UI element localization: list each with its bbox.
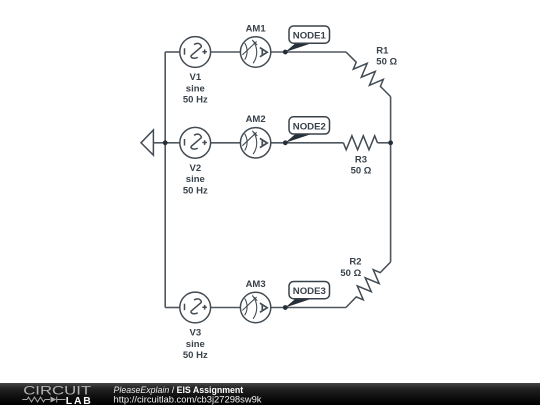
node NODE1 dot [283, 50, 288, 55]
ammeter AM1 [240, 37, 270, 67]
svg-text:NODE1: NODE1 [293, 31, 327, 42]
footer bar [0, 383, 540, 405]
resistor R2 [346, 262, 391, 308]
svg-text:50 Ω: 50 Ω [351, 166, 372, 177]
node NODE3 flag [285, 282, 329, 308]
resistor R3 [343, 136, 377, 150]
svg-text:50 Hz: 50 Hz [183, 95, 208, 106]
wire row2 stub triangle to bus [153, 142, 165, 144]
wire row1 V1 to AM1 [211, 51, 241, 53]
voltage source V1 [180, 37, 211, 68]
node NODE2 flag [285, 117, 329, 143]
svg-text:LAB: LAB [66, 396, 93, 405]
node NODE1 flag [285, 26, 329, 52]
svg-text:AM3: AM3 [246, 279, 266, 290]
wire row3 bus corner to V3 [165, 307, 180, 309]
node NODE2 dot [283, 140, 288, 145]
wire row2 R3 to right bus [378, 142, 391, 144]
svg-text:http://circuitlab.com/cb3j2729: http://circuitlab.com/cb3j27298sw9k [114, 393, 262, 404]
node NODE3 dot [283, 305, 288, 310]
svg-text:NODE2: NODE2 [293, 121, 326, 132]
svg-text:AM2: AM2 [246, 114, 266, 125]
svg-text:V2: V2 [189, 163, 201, 174]
ammeter AM3 [240, 292, 270, 322]
label R2 value [340, 257, 361, 280]
wire row2 AM2 to R3 [271, 142, 344, 144]
label R3 value [351, 154, 372, 176]
label V1 value [183, 72, 208, 106]
wire left bus vertical [164, 52, 166, 308]
label V2 value [183, 163, 208, 197]
wire right bus vertical [390, 97, 392, 262]
svg-text:sine: sine [186, 339, 205, 350]
svg-text:R1: R1 [376, 45, 389, 56]
svg-text:R2: R2 [349, 257, 361, 268]
svg-text:sine: sine [186, 174, 205, 185]
resistor R1 [346, 52, 391, 97]
svg-text:NODE3: NODE3 [293, 286, 326, 297]
ammeter AM2 [240, 128, 270, 158]
junction dot left bus row2 [163, 140, 168, 145]
ground terminal triangle [141, 130, 153, 155]
wire row2 V2 to AM2 [211, 142, 241, 144]
label V3 value [183, 328, 208, 362]
label R1 value [376, 45, 397, 67]
wire row2 bus to V2 [165, 142, 180, 144]
CircuitLab logo resistor-diode squiggle [22, 397, 65, 403]
svg-text:V3: V3 [189, 328, 201, 339]
svg-text:50 Hz: 50 Hz [183, 186, 208, 197]
wire row3 V3 to AM3 [211, 307, 241, 309]
voltage source V2 [180, 127, 211, 158]
wire row3 AM3 to R2 [271, 307, 346, 309]
svg-text:50 Ω: 50 Ω [340, 268, 361, 279]
wire row1 V1 left [165, 51, 180, 53]
svg-text:V1: V1 [189, 72, 201, 83]
svg-text:sine: sine [186, 83, 205, 94]
svg-text:R3: R3 [355, 154, 367, 165]
wire row1 AM1 to R1 [271, 51, 346, 53]
svg-text:AM1: AM1 [246, 23, 267, 34]
svg-text:50 Ω: 50 Ω [376, 57, 397, 68]
junction dot right bus row2 [388, 140, 393, 145]
voltage source V3 [180, 292, 211, 323]
svg-text:50 Hz: 50 Hz [183, 350, 208, 361]
